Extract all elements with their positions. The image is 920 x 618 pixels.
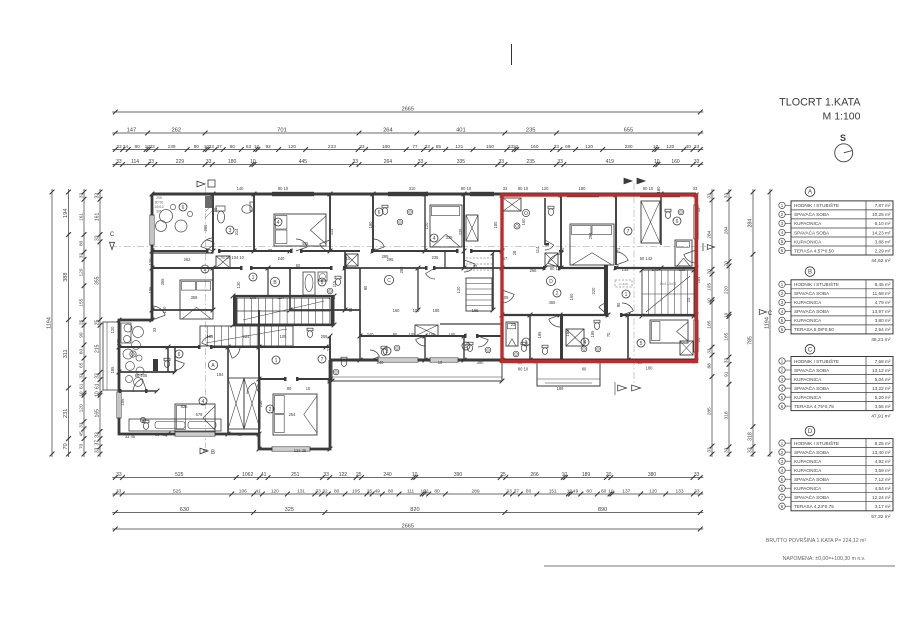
svg-text:189: 189 [582,472,591,478]
red apt lower bathrooms fixtures [521,345,526,352]
svg-text:90: 90 [79,332,85,338]
svg-text:10: 10 [306,386,311,391]
svg-text:180: 180 [656,186,661,194]
svg-text:259: 259 [321,334,329,339]
terrace bottom centre outline [537,361,600,386]
svg-text:65: 65 [78,362,84,368]
svg-text:231: 231 [63,409,69,418]
svg-text:80: 80 [135,144,141,150]
red apt vertical walls lower [529,315,531,360]
svg-text:80: 80 [238,432,243,437]
svg-text:235: 235 [526,128,536,134]
svg-text:47,91 m²: 47,91 m² [871,414,891,420]
svg-text:630: 630 [180,507,189,513]
svg-text:205: 205 [156,196,162,200]
terrace top-left hatched [152,194,213,253]
svg-text:3,80 m²: 3,80 m² [875,318,891,323]
svg-text:240: 240 [367,332,375,337]
exterior wall outline [152,193,696,196]
mid band verticals [212,268,214,310]
window left wall [150,215,154,245]
svg-text:465: 465 [549,300,557,305]
svg-text:BRUTTO POVRŠINA 1.KATA P= 224: BRUTTO POVRŠINA 1.KATA P= 224,12 m² [766,537,866,544]
svg-text:131: 131 [297,489,305,495]
svg-text:318: 318 [748,432,754,441]
window left lower wall [117,392,121,418]
bed wing room 254 [273,394,317,435]
shaft red apt bottom-right [680,341,693,355]
window bottom left [175,432,215,436]
svg-text:240: 240 [278,256,286,261]
svg-text:10: 10 [723,312,729,318]
svg-text:33 45: 33 45 [125,434,136,439]
svg-text:25: 25 [367,489,373,495]
svg-text:105: 105 [409,332,417,337]
stairwell bottom wall [233,324,334,326]
wall red apt lower band [502,314,608,316]
svg-text:100: 100 [116,338,121,346]
walls vertical top band [212,194,214,251]
wardrobe red apt [641,201,660,243]
svg-text:96: 96 [348,307,353,312]
svg-text:13,22 m²: 13,22 m² [872,386,891,391]
dimension chain top chain 3 [112,144,703,152]
svg-text:1062: 1062 [242,472,253,478]
left room sofa [121,323,131,343]
svg-text:32: 32 [322,489,328,495]
svg-text:33: 33 [323,472,329,478]
bed red apt top-right [675,240,692,266]
svg-text:4: 4 [584,340,587,346]
dimension chain bottom chain 3 [112,507,703,515]
svg-text:335: 335 [458,228,463,236]
svg-text:105: 105 [679,267,687,272]
svg-text:3: 3 [525,340,528,346]
svg-text:KUPAONICA: KUPAONICA [794,239,822,244]
staircase central [237,298,330,324]
section markers top centre [624,178,632,184]
svg-text:140: 140 [237,186,245,191]
svg-text:KUPAONICA: KUPAONICA [794,395,822,400]
dimension chain top chain 4 [112,159,703,167]
svg-text:SPAVAĆA SOBA: SPAVAĆA SOBA [794,449,830,455]
door arcs [201,238,213,247]
svg-text:655: 655 [624,128,634,134]
svg-text:2: 2 [204,267,207,273]
svg-text:88: 88 [707,363,713,369]
svg-text:161: 161 [78,213,84,221]
A lower-right bath fixtures [341,360,346,367]
bed red apt bedroom 294 [570,224,614,265]
shaft corridor right [545,253,558,266]
svg-text:105: 105 [449,332,457,337]
svg-text:33: 33 [724,447,730,453]
svg-text:310: 310 [409,186,417,191]
svg-text:2: 2 [269,407,272,413]
svg-text:33: 33 [425,144,431,150]
legend table B [779,267,893,343]
shaft mid bath [303,272,315,295]
corridor A fixtures [307,331,312,338]
wall corridor upper left [152,250,206,252]
svg-text:60: 60 [601,489,607,495]
svg-text:139: 139 [168,144,176,150]
svg-text:76 10 104 10: 76 10 104 10 [220,255,245,260]
svg-text:3,59 m²: 3,59 m² [875,468,891,473]
svg-text:KUPAONICA: KUPAONICA [794,486,822,491]
svg-text:820: 820 [410,507,419,513]
svg-text:266: 266 [530,472,539,478]
svg-text:318: 318 [724,411,730,419]
svg-text:33: 33 [557,159,563,165]
svg-text:D: D [808,429,813,435]
svg-text:10x10: 10x10 [154,205,163,209]
svg-text:6: 6 [378,210,381,216]
terrace bottom inner line [545,382,592,384]
svg-text:185: 185 [565,329,570,337]
svg-text:185: 185 [148,286,153,294]
red apt bathroom top-left fixtures [522,209,529,216]
svg-text:10: 10 [250,159,256,165]
svg-text:122 25: 122 25 [294,448,307,453]
window top wall 5 [470,192,494,196]
svg-text:120: 120 [666,144,674,150]
window bottom wing [272,447,310,451]
terrace round tables [160,210,173,223]
svg-text:80 90: 80 90 [155,201,164,205]
svg-text:A: A [808,190,812,196]
svg-text:10: 10 [706,298,712,304]
svg-text:120: 120 [585,144,593,150]
washing machine A bath [318,272,327,281]
svg-text:11,68 m²: 11,68 m² [872,291,891,296]
svg-text:10: 10 [513,144,519,150]
svg-text:13,97 m²: 13,97 m² [872,309,891,314]
svg-text:33: 33 [94,432,100,438]
svg-text:2: 2 [556,291,559,297]
svg-text:678: 678 [196,412,204,417]
room 3 fixtures [217,211,224,223]
svg-text:7,87 m²: 7,87 m² [875,203,891,208]
bathroom C top fixtures [382,208,387,215]
svg-text:335: 335 [457,159,466,165]
svg-text:785: 785 [747,336,753,345]
svg-text:33: 33 [473,264,478,269]
svg-text:185: 185 [537,331,542,339]
svg-text:33: 33 [78,193,84,199]
svg-text:33: 33 [353,159,359,165]
svg-text:SPAVAĆA SOBA: SPAVAĆA SOBA [794,385,830,391]
svg-text:80 10: 80 10 [643,186,654,191]
svg-text:335: 335 [446,235,454,240]
svg-text:80 10: 80 10 [518,367,529,372]
svg-text:185: 185 [433,308,441,313]
shaft top B [216,256,230,268]
wing top wall [259,378,286,380]
svg-text:1: 1 [252,275,255,281]
svg-text:120: 120 [649,489,657,495]
svg-text:161: 161 [94,213,100,222]
svg-text:C: C [387,278,391,284]
svg-text:33: 33 [206,159,212,165]
svg-text:60: 60 [296,263,301,268]
svg-text:314: 314 [329,228,334,236]
svg-text:185: 185 [590,330,595,338]
red apt vertical walls upper [544,198,546,245]
svg-text:355: 355 [160,278,165,286]
svg-text:6: 6 [182,205,185,211]
svg-text:12,24 m²: 12,24 m² [872,495,891,500]
shaft C2 [466,215,478,241]
floor opening dashed red apt [615,280,632,287]
staircase lower flight [200,326,293,346]
svg-text:61: 61 [94,383,100,389]
svg-text:13,40 m²: 13,40 m² [872,450,891,455]
svg-text:80: 80 [194,144,200,150]
svg-text:33: 33 [79,373,85,379]
svg-text:80 205: 80 205 [135,373,148,378]
svg-text:C: C [808,347,813,353]
svg-text:33: 33 [78,422,84,428]
svg-text:7: 7 [627,229,630,235]
svg-text:SPAVAĆA SOBA: SPAVAĆA SOBA [794,211,830,217]
svg-text:10: 10 [346,256,351,261]
svg-text:151: 151 [549,489,557,495]
svg-text:401: 401 [456,128,466,134]
dimension chain top chain 2 [112,128,703,136]
svg-text:33: 33 [694,144,700,150]
window top wall 1 (dark lintel) [272,192,314,196]
svg-text:224: 224 [278,295,286,300]
svg-text:114: 114 [535,246,540,253]
svg-text:80 10: 80 10 [518,186,529,191]
svg-text:120: 120 [79,404,85,412]
svg-text:284: 284 [723,226,729,234]
corridor C wall [440,323,502,325]
svg-text:180: 180 [646,366,654,371]
svg-text:264: 264 [384,159,393,165]
legend table C [779,345,893,420]
svg-text:525: 525 [173,489,181,495]
svg-text:5: 5 [321,280,324,286]
terrace left outline [103,322,119,390]
svg-text:S: S [840,133,846,143]
svg-text:49: 49 [573,489,579,495]
svg-text:135: 135 [622,267,630,272]
svg-text:1: 1 [275,358,278,364]
svg-text:10: 10 [95,391,101,397]
svg-text:33: 33 [116,472,122,478]
svg-text:20: 20 [724,261,730,267]
svg-text:445: 445 [299,159,308,165]
svg-text:33: 33 [706,348,712,354]
window top wall 3 [567,193,599,197]
staircase D red apt [642,270,694,316]
lower band verticals [167,347,169,372]
dimension chain top total 2665 [112,107,703,115]
svg-text:45: 45 [78,431,84,437]
svg-text:70: 70 [63,443,69,449]
svg-text:294: 294 [588,232,593,240]
svg-text:4,92 m²: 4,92 m² [875,459,891,464]
svg-text:105: 105 [280,334,288,339]
svg-text:57,32 m²: 57,32 m² [871,514,891,520]
svg-text:33: 33 [268,248,273,253]
svg-text:25: 25 [500,472,506,478]
svg-text:120: 120 [110,326,115,334]
svg-text:445: 445 [302,241,310,246]
svg-text:13,12 m²: 13,12 m² [872,368,891,373]
svg-text:23: 23 [511,322,516,327]
svg-text:140: 140 [652,267,660,272]
svg-text:40: 40 [686,144,692,150]
wall mid band left [152,309,213,311]
svg-text:33: 33 [694,472,700,478]
svg-text:205: 205 [203,224,208,232]
svg-text:10: 10 [412,472,418,478]
svg-text:24: 24 [123,144,129,150]
svg-text:180: 180 [493,221,498,229]
window top wall 2 [388,192,428,196]
svg-text:3,17 m²: 3,17 m² [875,504,891,509]
svg-text:C: C [110,232,115,238]
dimension chain left chain 2 [63,189,71,457]
stairwell side walls (black) [233,296,237,326]
svg-text:69: 69 [565,144,571,150]
wall junction tick marks [150,249,155,254]
svg-text:2665: 2665 [402,524,414,530]
svg-text:33: 33 [150,144,156,150]
svg-text:33: 33 [116,159,122,165]
svg-text:890: 890 [598,507,607,513]
svg-text:121: 121 [455,144,463,150]
svg-text:37: 37 [217,144,223,150]
svg-text:10: 10 [79,391,85,397]
svg-text:33: 33 [316,489,322,495]
svg-text:120: 120 [288,144,296,150]
svg-text:80 10: 80 10 [461,186,472,191]
svg-text:120: 120 [162,306,167,314]
svg-text:45,21 m²: 45,21 m² [871,337,891,343]
svg-text:194: 194 [63,209,69,218]
svg-text:7,68 m²: 7,68 m² [875,359,891,364]
svg-text:37: 37 [514,489,520,495]
svg-text:49: 49 [375,489,381,495]
svg-text:180: 180 [228,159,237,165]
svg-text:10: 10 [654,159,660,165]
svg-text:KUPAONICA: KUPAONICA [794,459,822,464]
svg-text:21: 21 [424,489,430,495]
svg-text:TERASA 4,23*0,75: TERASA 4,23*0,75 [794,504,834,509]
wall left bath bottom [119,371,175,373]
svg-text:33: 33 [694,489,700,495]
svg-text:16x17,5x28: 16x17,5x28 [660,282,677,286]
svg-text:295: 295 [382,254,390,259]
svg-text:4: 4 [202,399,205,405]
door jamb marks [206,249,209,253]
svg-text:SPAVAĆA SOBA: SPAVAĆA SOBA [794,476,830,482]
svg-text:90: 90 [616,302,621,307]
svg-text:63: 63 [246,144,252,150]
svg-text:HODNIK I STUBIŠTE: HODNIK I STUBIŠTE [794,202,839,208]
svg-text:NAPOMENA: ±0,00=+100,30 m n.v.: NAPOMENA: ±0,00=+100,30 m n.v. [783,556,866,562]
svg-text:184: 184 [217,372,225,377]
svg-text:165: 165 [95,409,101,418]
dimension chain right chain 2 [723,189,731,457]
svg-text:44,62 m²: 44,62 m² [871,258,891,264]
svg-text:4,54 m²: 4,54 m² [875,486,891,491]
shaft C [415,325,438,336]
svg-text:2,54 m²: 2,54 m² [875,327,891,332]
svg-text:215: 215 [95,344,101,353]
svg-text:105: 105 [706,283,712,291]
svg-text:160: 160 [569,293,574,301]
svg-text:3: 3 [229,228,232,234]
svg-text:+1,316: +1,316 [618,282,628,286]
svg-text:M 1:100: M 1:100 [823,111,861,123]
svg-text:7: 7 [321,357,324,363]
svg-text:105: 105 [352,489,360,495]
section marker right [702,243,704,251]
svg-text:SPAVAĆA SOBA: SPAVAĆA SOBA [794,494,830,500]
svg-text:526: 526 [181,404,189,409]
window right wall 2 [694,320,698,352]
svg-text:33: 33 [116,489,122,495]
registration mark top centre [511,44,513,65]
svg-text:5: 5 [640,341,643,347]
svg-text:285: 285 [707,407,713,415]
svg-text:120: 120 [148,258,153,266]
bed red apt bottom-right [650,320,688,343]
svg-text:70: 70 [78,443,84,449]
svg-text:61: 61 [78,383,84,389]
svg-text:SPAVAĆA SOBA: SPAVAĆA SOBA [794,229,830,235]
svg-text:105: 105 [207,334,215,339]
svg-text:120: 120 [456,286,461,294]
svg-text:91: 91 [723,371,729,377]
window right wall 1 [694,205,698,239]
svg-text:6: 6 [676,219,679,225]
svg-text:33: 33 [418,159,424,165]
svg-text:33: 33 [503,186,508,191]
svg-text:65: 65 [436,144,442,150]
svg-text:240: 240 [383,472,392,478]
window bottom wall C2 [430,358,458,362]
svg-text:230: 230 [625,144,633,150]
svg-text:25: 25 [356,472,362,478]
svg-text:33: 33 [95,235,101,241]
svg-text:33: 33 [78,253,84,259]
svg-text:325: 325 [285,507,294,513]
svg-text:10: 10 [562,472,568,478]
svg-text:28: 28 [512,250,517,255]
footer rule [544,565,895,567]
bed bedroom A 358 [180,280,213,319]
svg-text:33 45: 33 45 [155,432,166,437]
svg-text:186: 186 [429,332,437,337]
svg-text:390: 390 [454,472,463,478]
svg-text:HODNIK I STUBIŠTE: HODNIK I STUBIŠTE [794,358,839,364]
svg-text:80: 80 [586,489,592,495]
svg-text:358: 358 [191,295,199,300]
svg-text:10,25 m²: 10,25 m² [872,212,891,217]
svg-text:185: 185 [110,366,115,374]
svg-text:SPAVAĆA SOBA: SPAVAĆA SOBA [794,290,830,296]
svg-text:4,79 m²: 4,79 m² [875,300,891,305]
section marker B top [197,181,205,187]
svg-text:33: 33 [148,159,154,165]
svg-text:33: 33 [95,447,101,453]
